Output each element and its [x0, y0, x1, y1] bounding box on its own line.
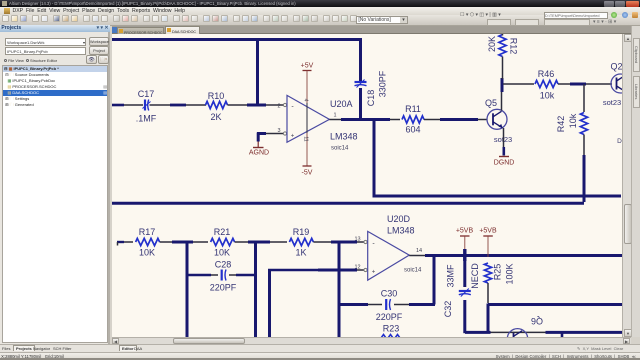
wire: bottom rail: [465, 332, 624, 338]
label C18 rotated: [366, 90, 376, 107]
value 330PF rotated: [378, 70, 388, 97]
svg-text:LM348: LM348: [330, 132, 358, 142]
wire: output down to lower rail: [373, 118, 376, 198]
resistor R10: [206, 101, 228, 108]
svg-text:R25: R25: [493, 264, 503, 281]
wire: C18 branch vertical: [359, 88, 362, 121]
svg-text:604: 604: [405, 125, 420, 135]
footprint sot23 (Q5): [494, 135, 512, 144]
ground AGND: [249, 142, 269, 157]
wire: right lower net: [488, 304, 624, 334]
svg-text:DGND: DGND: [494, 160, 515, 167]
wire stub left edge of C17 net: [112, 104, 124, 107]
svg-text:10k: 10k: [540, 91, 555, 101]
label R10: [208, 91, 225, 101]
label R46: [538, 69, 555, 79]
wire: AGND elbow to U20A pin3: [257, 133, 284, 142]
op-amp U20D: [368, 231, 410, 280]
value .1MF: [136, 114, 157, 124]
svg-text:Q6: Q6: [531, 316, 543, 326]
value 20K rotated: [487, 36, 497, 52]
svg-text:C28: C28: [215, 260, 232, 270]
footprint soic14: [331, 146, 349, 152]
right toolbar row1: path combo: [460, 12, 540, 19]
value 1K: [295, 248, 306, 258]
label C28: [215, 260, 232, 270]
pin circle U20A pin 2: [283, 103, 286, 106]
title bar: [0, 0, 640, 7]
value 10K (R17): [139, 248, 155, 258]
resistor R21: [211, 238, 235, 245]
pin circle U20A pin 3: [283, 132, 286, 135]
wire: R21 to R19 with junction: [235, 241, 287, 243]
document tab bar: [112, 26, 640, 34]
svg-text:1: 1: [333, 113, 336, 119]
svg-text:2: 2: [277, 104, 280, 110]
wire: Q5 collector up to R12/R46 node: [501, 78, 504, 111]
svg-text:-5V: -5V: [302, 170, 313, 177]
pin number 13: [354, 237, 360, 243]
resistor R25 vertical: [484, 263, 491, 283]
status bar: [0, 352, 640, 360]
svg-text:C30: C30: [381, 289, 398, 299]
svg-text:.1MF: .1MF: [136, 114, 157, 124]
pin number 11: [303, 136, 309, 141]
svg-text:4: 4: [303, 99, 309, 102]
pin number 3: [277, 128, 280, 134]
part LM348: [330, 132, 358, 142]
wire: pin12 horizontal: [268, 269, 364, 272]
value 10k: [540, 91, 555, 101]
power +5VB second: [479, 228, 497, 258]
footprint NECD rotated: [470, 263, 480, 289]
pin number 2: [277, 104, 280, 110]
value 33MF rotated: [446, 264, 456, 288]
svg-text:-: -: [291, 104, 294, 111]
wire: Q5 emitter to DGND: [503, 128, 505, 156]
right toolbar row2: combos: [487, 19, 511, 26]
value 604: [405, 125, 420, 135]
svg-text:11: 11: [303, 136, 309, 141]
wire: R10 to U20A pin2 with junction: [228, 104, 284, 106]
footprint sot23 (Q2): [603, 98, 621, 107]
svg-text:R21: R21: [214, 227, 231, 237]
svg-text:C18: C18: [366, 90, 376, 107]
svg-text:LM348: LM348: [387, 226, 415, 236]
wire: pin12 feedback corner vertical: [268, 269, 271, 338]
svg-text:10k: 10k: [568, 113, 578, 128]
wire: node to R46: [503, 83, 534, 85]
pin circle U20D pin13: [364, 240, 367, 243]
capacitor C18: [355, 80, 367, 88]
label R42 rotated: [556, 116, 566, 133]
svg-text:+5VB: +5VB: [456, 228, 474, 235]
svg-text:1K: 1K: [295, 248, 306, 258]
label C30: [381, 289, 398, 299]
svg-text:R23: R23: [383, 324, 400, 334]
value 100K rotated: [505, 263, 515, 284]
svg-text:R17: R17: [139, 227, 156, 237]
svg-text:+: +: [372, 270, 376, 276]
svg-text:U20A: U20A: [330, 99, 353, 109]
label R17: [139, 227, 156, 237]
wire: output branch down to C30: [433, 255, 436, 305]
resistor R11: [402, 116, 424, 123]
value 220PF (C30): [376, 312, 403, 322]
right vertical tab strip: [631, 26, 640, 337]
svg-text:C17: C17: [138, 89, 155, 99]
label C17: [138, 89, 155, 99]
pin number 4: [303, 99, 309, 102]
label Q5: [485, 98, 497, 108]
no variations combo: [356, 16, 408, 24]
pin number 1: [333, 113, 336, 119]
wire: top-section bottom rail: [374, 195, 621, 198]
inactive tab PROCESSOR.SCHDOC: [117, 27, 164, 34]
footprint soic14 (U20D): [404, 268, 422, 274]
resistor R19: [289, 238, 313, 245]
value 10k (R42) rotated: [568, 113, 578, 128]
wire: U20D center vertical: [338, 241, 341, 338]
svg-text:Q5: Q5: [485, 98, 497, 108]
svg-text:33MF: 33MF: [446, 264, 456, 288]
zone letter D: [617, 138, 622, 145]
svg-text:14: 14: [416, 248, 422, 254]
svg-text:330PF: 330PF: [378, 70, 388, 97]
label R25 rotated: [493, 264, 503, 281]
wire R12 pins: [502, 34, 504, 79]
label Q2: [610, 62, 622, 72]
svg-text:220PF: 220PF: [376, 312, 403, 322]
wire: R17 to R21 with junction: [160, 241, 208, 243]
label Q6 rotated: [531, 316, 543, 326]
wire: C28 net: [187, 274, 257, 277]
svg-text:U20D: U20D: [387, 214, 411, 224]
wire: top horizontal net from left edge: [110, 40, 362, 82]
label R11: [405, 104, 421, 114]
svg-text:R19: R19: [293, 227, 310, 237]
svg-text:+: +: [291, 134, 295, 140]
transistor Q2: [611, 74, 630, 93]
svg-text:R42: R42: [556, 116, 566, 133]
svg-text:13: 13: [354, 237, 360, 243]
svg-text:R11: R11: [405, 104, 421, 114]
svg-text:soic14: soic14: [404, 268, 422, 274]
svg-text:sot23: sot23: [603, 98, 621, 107]
power +5VB first: [456, 228, 474, 251]
capacitor C28: [222, 270, 226, 281]
svg-text:soic14: soic14: [331, 146, 349, 152]
capacitor C30: [386, 299, 390, 310]
op-amp U20A: [287, 95, 329, 142]
wire: R42 branch down: [583, 84, 585, 112]
svg-text:10K: 10K: [139, 248, 155, 258]
svg-text:AGND: AGND: [249, 150, 269, 157]
svg-text:100K: 100K: [505, 263, 515, 284]
active tab DAA.SCHDOC: [165, 26, 200, 34]
resistor R23 partial: [381, 335, 400, 339]
window buttons: [604, 1, 614, 7]
wire: R19 to U20D pin13 junction: [313, 241, 364, 243]
toolbar: [0, 15, 640, 26]
label R21: [214, 227, 231, 237]
svg-text:R12: R12: [509, 38, 519, 55]
resistor R12 vertical: [499, 35, 506, 57]
label R12 rotated: [509, 38, 519, 55]
label R19: [293, 227, 310, 237]
value 10K (R21): [214, 248, 230, 258]
wire: R25 bottom to corner: [487, 283, 489, 303]
capacitor C32: [459, 289, 471, 297]
svg-text:+5VB: +5VB: [479, 228, 497, 235]
label C32 rotated: [443, 301, 453, 318]
wire: full-width mid rail: [111, 202, 584, 205]
wire: R42 down to lower rail corner: [583, 135, 585, 203]
svg-text:10K: 10K: [214, 248, 230, 258]
wire: C30 net: [339, 303, 435, 306]
svg-text:3: 3: [277, 128, 280, 134]
wire: +5VB junction through C32: [463, 249, 466, 333]
resistor R42 vertical: [580, 113, 587, 135]
wire: R11 to Q5 base: [424, 119, 487, 121]
resistor R46: [535, 80, 558, 87]
wire: feedback vertical into pin2 junction: [256, 38, 259, 105]
wire: U20D output net to right edge: [409, 255, 625, 257]
svg-text:20K: 20K: [487, 36, 497, 52]
horizontal scrollbar: [112, 337, 631, 344]
wire: C17 to R10 net: [124, 104, 206, 106]
wire: C28 left vertical branch: [186, 241, 189, 338]
svg-text:2K: 2K: [210, 112, 221, 122]
svg-text:NECD: NECD: [470, 263, 480, 289]
power +5V: [301, 63, 314, 104]
bottom tab row: [0, 344, 640, 352]
transistor Q5: [487, 109, 507, 129]
value 220PF (C28): [210, 283, 237, 293]
svg-text:12: 12: [354, 265, 360, 271]
label R23: [383, 324, 400, 334]
part LM348 (U20D): [387, 226, 415, 236]
value 2K: [210, 112, 221, 122]
svg-text:Q2: Q2: [610, 62, 622, 72]
wire: R46 to Q2 base with R42 junction: [558, 83, 612, 85]
wire: C28 right vertical down: [254, 241, 257, 338]
resistor R17: [136, 238, 160, 245]
svg-text:-: -: [372, 241, 375, 248]
pin number 14: [416, 248, 422, 254]
vertical scrollbar: [622, 34, 631, 337]
svg-text:220PF: 220PF: [210, 283, 237, 293]
pin circle U20D pin12: [364, 268, 367, 271]
ground DGND: [494, 157, 515, 167]
svg-text:R46: R46: [538, 69, 555, 79]
pin number 12: [354, 265, 360, 271]
transistor Q6: [507, 329, 527, 349]
designator U20D: [387, 214, 411, 224]
svg-text:R10: R10: [208, 91, 225, 101]
svg-text:+5V: +5V: [301, 63, 314, 70]
power -5V: [302, 133, 313, 177]
svg-text:C32: C32: [443, 301, 453, 318]
menu bar: [0, 7, 640, 15]
wire: lower main net start stub: [117, 242, 124, 246]
capacitor C17: [143, 100, 151, 111]
wire: to R17: [124, 241, 133, 243]
wire: U20A output net: [329, 119, 400, 121]
designator U20A: [330, 99, 353, 109]
